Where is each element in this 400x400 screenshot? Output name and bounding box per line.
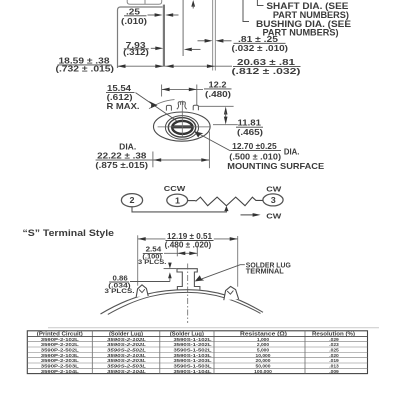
table row lines [27,335,367,337]
mounting lug right [193,105,198,110]
side lug left [136,285,148,297]
svg-text:15.54: 15.54 [107,84,132,93]
svg-text:3590P-2-103L: 3590P-2-103L [41,353,79,359]
svg-text:3 PLCS.: 3 PLCS. [138,259,167,266]
svg-text:(.465): (.465) [237,128,263,137]
dim 11.81 arrows [224,107,228,125]
svg-text:Resistance (Ω): Resistance (Ω) [240,331,287,337]
table col 3 values [174,337,212,375]
svg-text:DIA.: DIA. [119,142,136,151]
svg-text:Resolution (%): Resolution (%) [312,331,355,337]
svg-text:3590S-2-104L: 3590S-2-104L [107,369,146,375]
svg-text:3590P-2-503L: 3590P-2-503L [41,364,79,370]
svg-text:(.875 ±.015): (.875 ±.015) [95,161,148,170]
svg-text:3590P-2-202L: 3590P-2-202L [41,342,79,348]
svg-text:CW: CW [266,184,282,193]
dim 12.2 line [162,88,203,92]
dim .81 text [232,35,289,53]
svg-text:2: 2 [130,196,136,205]
dim .81 arrows [198,39,232,43]
svg-text:20.63 ± .81: 20.63 ± .81 [237,58,296,67]
shaft slot [173,125,193,128]
svg-text:(.732 ± .015): (.732 ± .015) [56,65,115,74]
shaft end lines [212,0,214,71]
svg-text:22.22 ± .38: 22.22 ± .38 [97,152,147,161]
svg-text:(.480 ± .020): (.480 ± .020) [165,240,212,249]
svg-text:(.032 ± .010): (.032 ± .010) [232,44,289,53]
dim .25 text [121,8,147,26]
svg-text:1: 1 [175,196,181,205]
wire term1 to element [188,200,196,202]
table col 5 values [329,337,339,375]
svg-text:12.2: 12.2 [209,81,228,90]
svg-text:.013: .013 [329,364,339,370]
table col 4 values [254,337,272,375]
svg-text:PART NUMBERS): PART NUMBERS) [263,28,339,38]
svg-text:(Printed Circuit): (Printed Circuit) [37,331,83,337]
table column lines [92,331,305,374]
svg-text:3590P-2-102L: 3590P-2-102L [41,337,79,343]
wiper arrow [224,206,228,211]
centerline horizontal [158,126,210,128]
svg-text:(.480): (.480) [205,90,231,99]
dim 12.19 extensions [137,235,139,285]
anti-rotation pin [177,102,187,110]
svg-text:3590S-2-103L: 3590S-2-103L [107,353,146,359]
table col 1 values [41,337,79,375]
R sweep arc [149,100,175,109]
svg-text:.019: .019 [329,358,339,364]
svg-text:50,000: 50,000 [256,364,271,370]
svg-text:10,000: 10,000 [256,353,271,359]
svg-text:(.312): (.312) [123,48,149,57]
svg-text:(.010): (.010) [121,17,147,26]
body outline [118,7,163,68]
resistor element [196,197,263,206]
15.54 label [106,84,140,111]
svg-text:11.81: 11.81 [238,119,262,128]
housing arcs [101,290,264,314]
svg-text:3590S-2-203L: 3590S-2-203L [107,358,146,364]
inner ring [168,118,195,137]
dim 18.59 text [56,57,115,74]
dim 2.54 extensions [176,246,178,256]
svg-text:2,000: 2,000 [257,342,270,348]
svg-text:3: 3 [271,196,277,205]
locknut strip [127,0,162,4]
svg-text:3 PLCS.: 3 PLCS. [105,288,135,295]
svg-text:5,000: 5,000 [257,348,270,354]
chained dim line 18.59 / 20.63 [118,64,233,68]
mounting lug left [166,105,171,110]
svg-text:(.812 ± .032): (.812 ± .032) [232,67,301,76]
svg-text:3590S-1-104L: 3590S-1-104L [174,369,212,375]
dim 22.22 label [95,142,148,170]
svg-text:1,000: 1,000 [257,337,270,343]
centerline vertical [181,101,183,138]
dim 22.22 extensions [152,152,154,168]
bushing label bracket [243,0,249,22]
svg-text:3590S-1-502L: 3590S-1-502L [174,348,212,354]
svg-text:3590S-1-503L: 3590S-1-503L [174,364,212,370]
leader 15.54 [136,93,177,121]
svg-text:0.86: 0.86 [113,273,128,282]
bushing ring [165,116,198,140]
bushing face line [182,0,184,56]
solder lug terminal (center) [177,269,200,290]
svg-text:.025: .025 [329,348,339,354]
svg-text:.023: .023 [329,342,339,348]
leader 12.70 [196,132,230,150]
dim 20.63 text [232,58,301,76]
up arrow [191,0,195,7]
svg-text:(Solder Lug): (Solder Lug) [109,331,143,337]
table header [37,331,356,337]
leader solder lug [197,265,245,281]
svg-text:20,000: 20,000 [256,358,271,364]
dim 2.54 text [138,245,167,266]
12.70 label [227,142,324,171]
svg-text:.009: .009 [329,369,339,375]
svg-text:12.70 ±0.25: 12.70 ±0.25 [232,142,277,151]
svg-text:3590S-2-202L: 3590S-2-202L [107,342,146,348]
svg-text:3590S-2-502L: 3590S-2-502L [107,348,146,354]
svg-text:MOUNTING SURFACE: MOUNTING SURFACE [227,162,324,171]
dim 11.81 text [236,119,263,138]
washer line [163,5,165,67]
svg-text:(.500 ± .010): (.500 ± .010) [229,153,281,162]
svg-text:.25: .25 [126,8,141,17]
side lug right [224,286,239,300]
CW direction arrow [241,214,254,216]
dim 12.19 line [138,237,238,241]
svg-text:DIA.: DIA. [284,148,300,157]
svg-text:3590S-2-503L: 3590S-2-503L [107,364,146,370]
terminal 2 [121,194,142,207]
svg-text:.020: .020 [329,353,339,359]
svg-text:3590P-2-502L: 3590P-2-502L [41,348,79,354]
svg-text:TERMINAL: TERMINAL [246,269,285,276]
dim 12.2 text [204,81,232,99]
dim 7.93 text [123,41,149,57]
svg-text:(.612): (.612) [107,93,133,102]
dim 0.86 arrows [130,263,176,282]
shaft ring [172,121,192,134]
table col 2 values (bold italic) [107,337,146,375]
svg-text:3590P-2-203L: 3590P-2-203L [41,358,79,364]
svg-text:3590S-1-202L: 3590S-1-202L [174,342,212,348]
svg-text:CW: CW [266,212,282,221]
dim .25 arrows [148,13,179,17]
svg-text:3590S-1-103L: 3590S-1-103L [174,353,212,359]
svg-text:.029: .029 [329,337,339,343]
dim 11.81 top tick [199,105,234,107]
svg-text:3590S-1-102L: 3590S-1-102L [174,337,212,343]
svg-text:“S” Terminal Style: “S” Terminal Style [23,228,115,239]
svg-text:(Solder Lug): (Solder Lug) [170,331,204,337]
table frame [27,331,367,374]
dim 2.54 arrows [164,252,197,256]
dim 7.93 arrows [151,47,201,52]
dim 12.19 text [165,232,214,249]
svg-text:3590S-1-203L: 3590S-1-203L [174,358,212,364]
terminal 1 [167,194,188,206]
dim 12.2 extension ticks [161,85,163,97]
body ellipse [154,112,211,141]
faint rule [48,327,379,329]
centerline dash-dot [187,264,189,324]
shaft label bracket [257,0,263,6]
svg-text:3590P-2-104L: 3590P-2-104L [41,369,79,375]
dim 0.86 text [105,273,135,295]
terminal 3 [263,194,283,206]
svg-text:2.54: 2.54 [146,245,162,254]
svg-text:R MAX.: R MAX. [107,102,140,111]
svg-text:3590S-2-102L: 3590S-2-102L [107,337,146,343]
wiper wire [132,207,226,212]
svg-text:CCW: CCW [164,184,187,193]
svg-text:100,000: 100,000 [254,369,272,375]
dim 22.22 line [96,158,210,162]
